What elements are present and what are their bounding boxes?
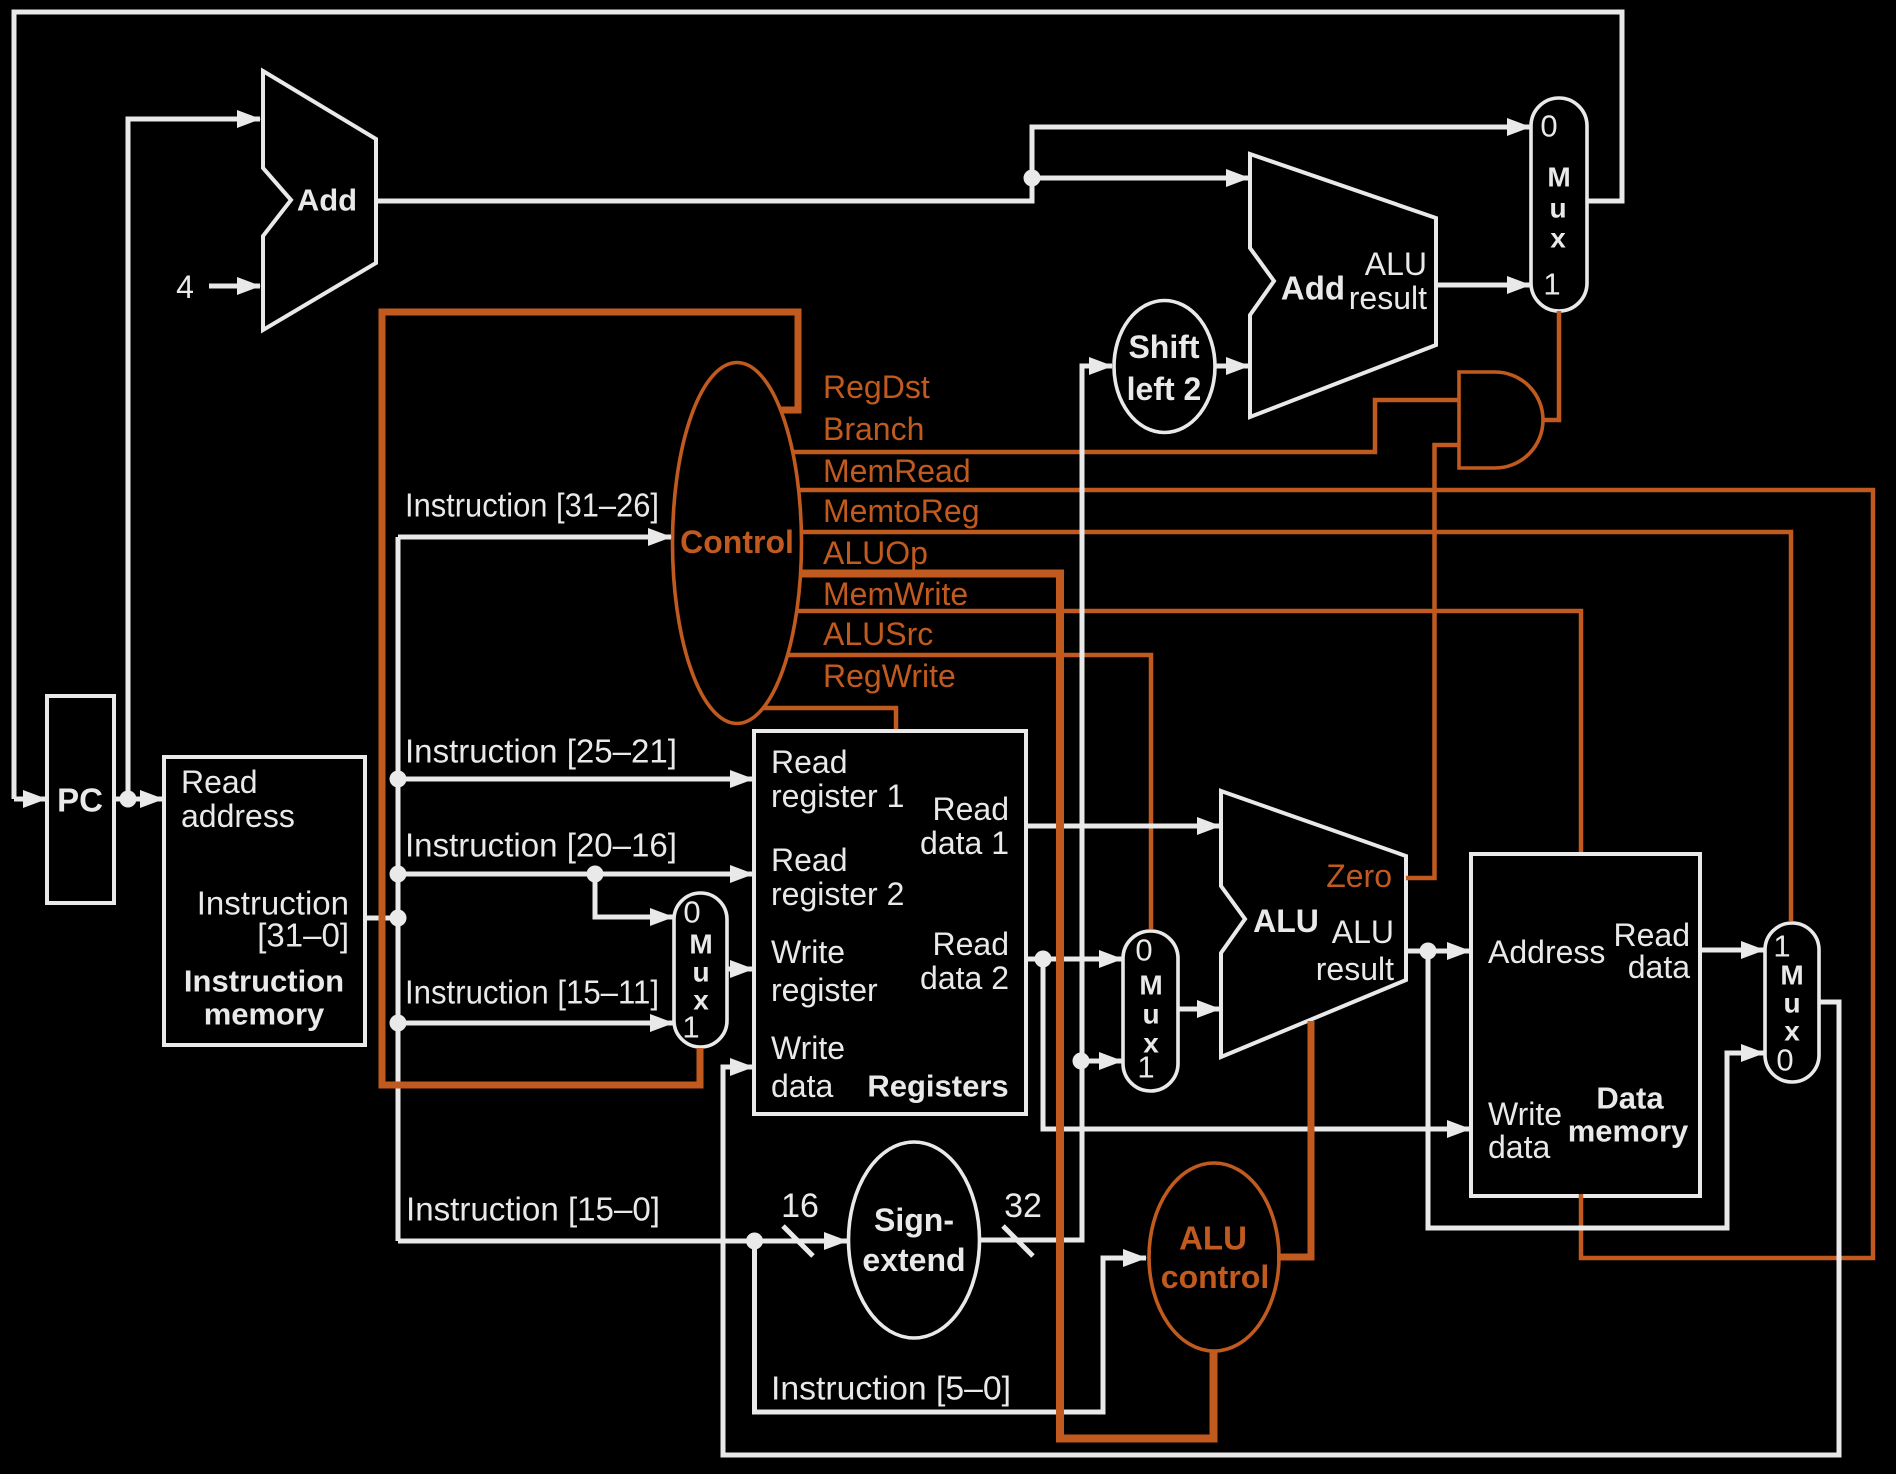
svg-text:PC: PC <box>57 782 103 819</box>
svg-text:0: 0 <box>1776 1043 1793 1078</box>
svg-text:register 1: register 1 <box>771 778 904 814</box>
svg-text:data: data <box>1488 1129 1550 1165</box>
svg-text:Sign-: Sign- <box>874 1202 954 1238</box>
svg-text:u: u <box>1142 999 1159 1030</box>
svg-text:Instruction: Instruction <box>184 964 344 999</box>
svg-text:16: 16 <box>781 1187 819 1225</box>
svg-text:Write: Write <box>1488 1096 1562 1132</box>
svg-text:Address: Address <box>1488 934 1605 970</box>
svg-text:Instruction [20–16]: Instruction [20–16] <box>405 827 677 864</box>
svg-text:u: u <box>1549 193 1566 224</box>
svg-text:Control: Control <box>680 524 794 560</box>
svg-text:Read: Read <box>181 764 258 800</box>
svg-text:Read: Read <box>771 842 848 878</box>
svg-text:Instruction [25–21]: Instruction [25–21] <box>405 733 677 770</box>
svg-text:ALUSrc: ALUSrc <box>823 616 933 652</box>
svg-text:Branch: Branch <box>823 411 924 447</box>
svg-text:Read: Read <box>933 791 1010 827</box>
svg-text:ALUOp: ALUOp <box>823 535 928 571</box>
svg-text:ALU: ALU <box>1365 246 1427 282</box>
svg-text:extend: extend <box>862 1242 965 1278</box>
svg-text:Add: Add <box>297 183 357 218</box>
svg-text:RegWrite: RegWrite <box>823 658 956 694</box>
svg-text:Registers: Registers <box>867 1069 1008 1104</box>
svg-text:RegDst: RegDst <box>823 369 930 405</box>
svg-text:control: control <box>1161 1259 1269 1295</box>
svg-text:u: u <box>692 957 709 988</box>
svg-text:data: data <box>771 1068 833 1104</box>
svg-text:register: register <box>771 972 878 1008</box>
svg-text:Instruction [31–26]: Instruction [31–26] <box>405 487 659 524</box>
svg-text:result: result <box>1349 280 1427 316</box>
svg-text:Zero: Zero <box>1326 858 1392 894</box>
svg-text:data 1: data 1 <box>920 825 1009 861</box>
svg-text:Write: Write <box>771 1030 845 1066</box>
svg-text:u: u <box>1783 988 1800 1019</box>
svg-text:data: data <box>1628 949 1690 985</box>
svg-text:address: address <box>181 798 295 834</box>
svg-text:result: result <box>1316 951 1394 987</box>
svg-text:Write: Write <box>771 934 845 970</box>
svg-text:left 2: left 2 <box>1127 371 1202 407</box>
svg-text:Read: Read <box>933 926 1010 962</box>
svg-text:x: x <box>1550 223 1566 254</box>
svg-text:0: 0 <box>683 895 700 930</box>
svg-text:M: M <box>689 929 712 960</box>
svg-text:[31–0]: [31–0] <box>257 917 349 954</box>
svg-text:Instruction [5–0]: Instruction [5–0] <box>771 1370 1011 1407</box>
svg-text:4: 4 <box>176 269 194 305</box>
svg-text:Add: Add <box>1281 270 1345 307</box>
svg-text:data 2: data 2 <box>920 960 1009 996</box>
svg-text:1: 1 <box>682 1010 699 1045</box>
svg-text:MemWrite: MemWrite <box>823 576 968 612</box>
svg-text:Shift: Shift <box>1128 329 1199 365</box>
svg-text:ALU: ALU <box>1332 914 1394 950</box>
svg-text:1: 1 <box>1137 1050 1154 1085</box>
svg-text:ALU: ALU <box>1253 903 1319 939</box>
svg-text:Data: Data <box>1596 1081 1664 1116</box>
svg-text:MemRead: MemRead <box>823 453 971 489</box>
svg-text:M: M <box>1139 970 1162 1001</box>
svg-text:MemtoReg: MemtoReg <box>823 493 980 529</box>
svg-text:memory: memory <box>1568 1114 1689 1149</box>
svg-text:Instruction [15–11]: Instruction [15–11] <box>405 974 659 1011</box>
svg-text:Instruction [15–0]: Instruction [15–0] <box>406 1191 660 1228</box>
svg-text:memory: memory <box>204 997 325 1032</box>
svg-text:Read: Read <box>1614 917 1691 953</box>
svg-text:0: 0 <box>1540 109 1557 144</box>
svg-text:Read: Read <box>771 744 848 780</box>
svg-text:32: 32 <box>1004 1187 1042 1225</box>
svg-text:register 2: register 2 <box>771 876 904 912</box>
svg-text:1: 1 <box>1773 929 1790 964</box>
svg-text:0: 0 <box>1135 933 1152 968</box>
svg-text:M: M <box>1547 162 1570 193</box>
svg-text:M: M <box>1780 960 1803 991</box>
svg-text:ALU: ALU <box>1179 1220 1247 1257</box>
svg-text:1: 1 <box>1543 267 1560 302</box>
